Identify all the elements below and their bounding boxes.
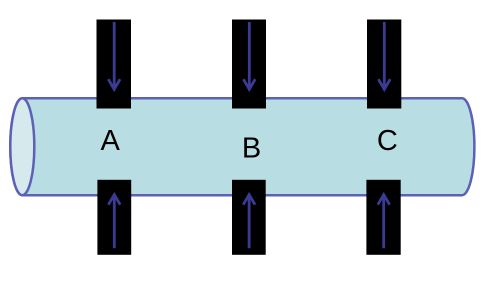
svg-text:B: B — [242, 132, 261, 164]
svg-text:C: C — [377, 125, 398, 157]
svg-text:A: A — [101, 125, 121, 157]
